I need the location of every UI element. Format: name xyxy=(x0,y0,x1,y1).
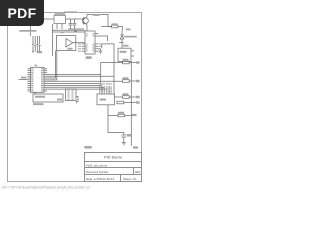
svg-text:PID Demo: PID Demo xyxy=(104,155,122,160)
svg-text:FILE: pid_demo: FILE: pid_demo xyxy=(86,163,108,167)
svg-text:Date: 1/7/2013 18:14: Date: 1/7/2013 18:14 xyxy=(86,177,114,181)
svg-text:Sheet: 1/1: Sheet: 1/1 xyxy=(123,177,137,181)
svg-text:REV: REV xyxy=(135,170,141,174)
svg-text:Document Number: Document Number xyxy=(86,170,109,174)
svg-text:1/9/17 17:46 f=0.58 /devices/P: 1/9/17 17:46 f=0.58 /devices/Projects/Te… xyxy=(2,186,90,190)
